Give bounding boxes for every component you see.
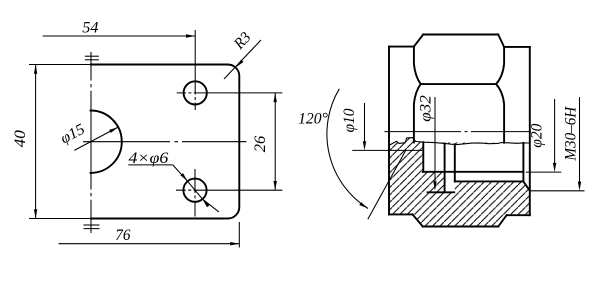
nut outer right wall (529, 47, 531, 215)
nut chamfer line across middle face (421, 83, 496, 85)
svg-text:40: 40 (12, 130, 29, 147)
hole top vertical centerline / 54 extension (194, 30, 196, 110)
nut right face top edge (504, 46, 530, 48)
horizontal axis centerline (384, 131, 531, 133)
base left chamfer slant (413, 214, 423, 226)
base left shelf edge (389, 213, 413, 215)
phi6 diameter line through hole (188, 181, 203, 199)
dim 26 line with arrows (274, 93, 276, 190)
hole bottom phi6 circle (183, 179, 206, 202)
svg-text:φ20: φ20 (529, 123, 546, 147)
svg-text:120°: 120° (298, 110, 328, 127)
svg-text:26: 26 (252, 135, 269, 152)
plate outline (top edge, rounded corner R3, right edge, bottom edge) (91, 65, 239, 219)
R3 leader line (224, 40, 261, 79)
dim M30-6H line with down arrow (579, 97, 581, 183)
counterbore left wall (422, 142, 424, 172)
svg-text:φ32: φ32 (417, 95, 434, 122)
base right chamfer slant (498, 215, 506, 226)
nut left corner edge with chamfer pinch (414, 47, 421, 143)
symmetry marks top (85, 55, 99, 57)
thread bore right wall (522, 143, 524, 182)
break wavy line (389, 138, 530, 146)
svg-text:M30–6H: M30–6H (562, 106, 579, 162)
vertical symmetry centerline (90, 52, 92, 233)
phi6 second dimension arrow segment (202, 199, 219, 212)
nut right corner edge with chamfer pinch (496, 47, 504, 143)
hole phi10 right wall (454, 144, 456, 181)
hole top phi6 circle (184, 81, 207, 104)
horizontal centerline of plate (83, 141, 247, 143)
4x phi6 label shelf line (128, 164, 173, 166)
dim 76 line with right arrow (59, 243, 240, 245)
thread lower line (455, 180, 524, 182)
wire bottom extension line for 40 dim (29, 218, 91, 220)
hole bottom horizontal centerline / 26 extension (176, 189, 282, 191)
hole top horizontal centerline / 26 extension (177, 92, 283, 94)
nut outer left wall (388, 47, 390, 215)
nut top flat edge (423, 34, 498, 36)
dim phi10 extension line (352, 149, 423, 151)
dim phi10 line with down arrow (364, 103, 366, 143)
section hatching (389, 138, 530, 227)
dim 120deg arc (327, 89, 368, 209)
symmetry marks bottom (84, 224, 100, 226)
dim phi32 line with down arrow (434, 97, 436, 184)
dim 76 extension line (238, 222, 240, 248)
hole bottom vertical centerline (194, 169, 196, 217)
svg-text:54: 54 (82, 20, 98, 37)
bore floor line (423, 171, 524, 173)
nut left face top edge (389, 46, 414, 48)
svg-text:φ10: φ10 (341, 108, 358, 132)
hole bottom line (428, 191, 455, 193)
dim phi20 extension line (526, 171, 561, 173)
4x phi6 leader with arrow (173, 165, 188, 181)
dim M30-6H extension line (530, 190, 585, 192)
base right shelf edge (507, 214, 530, 216)
base bottom face edge (423, 226, 498, 228)
dim phi20 line with down arrow (554, 99, 556, 165)
hole phi10 left wall (444, 143, 446, 192)
phi15 leader line (74, 127, 118, 150)
wire top extension line for 40 dim (29, 64, 91, 66)
nut top right chamfer slant (498, 35, 504, 47)
thread end chamfer slant (523, 182, 530, 191)
svg-text:76: 76 (115, 227, 130, 244)
svg-text:4×φ6: 4×φ6 (129, 150, 169, 167)
hole phi15 half arc (91, 111, 122, 173)
nut top left chamfer slant (414, 35, 423, 47)
dim 120deg extension ray (368, 151, 406, 220)
dim 40 line with arrows (35, 65, 37, 219)
dim 54 line with right arrow (43, 35, 196, 37)
